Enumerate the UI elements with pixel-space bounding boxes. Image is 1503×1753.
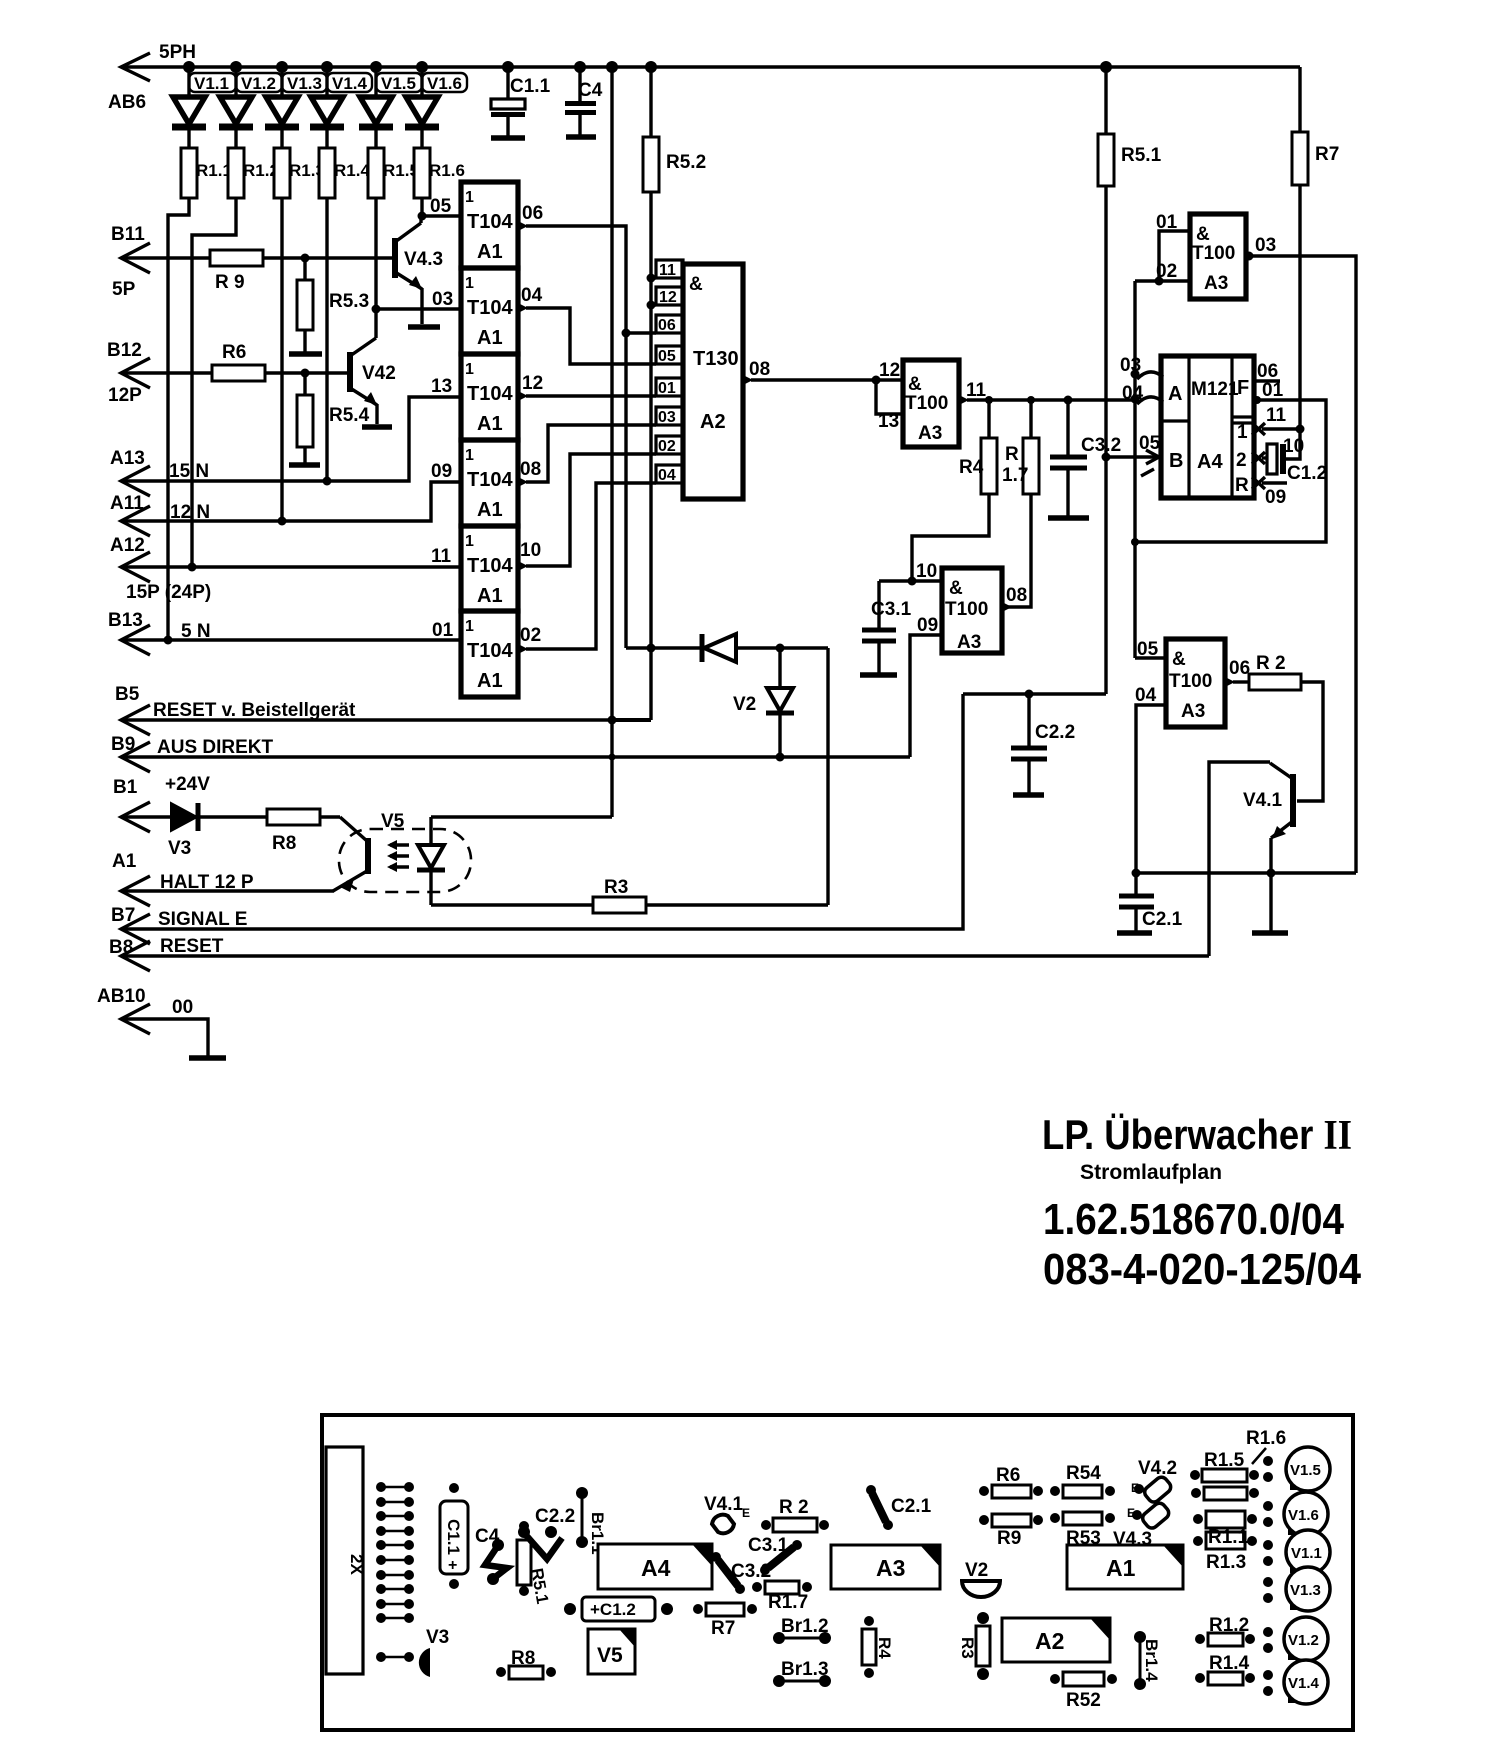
wire 5N line to T104 input 01 (121, 620, 461, 641)
svg-text:11: 11 (659, 262, 676, 279)
wire 5P line (121, 256, 210, 259)
svg-text:R1.6: R1.6 (429, 161, 465, 180)
svg-text:&: & (689, 274, 703, 295)
svg-text:C1.2: C1.2 (1287, 463, 1327, 484)
svg-text:V4.1: V4.1 (1243, 790, 1283, 811)
wire V2 node to R3 (826, 648, 829, 905)
svg-text:01: 01 (658, 380, 676, 397)
svg-text:1: 1 (465, 447, 474, 464)
wire out04 to A2 input 05 (526, 308, 656, 364)
ground C2.2 (1013, 792, 1044, 798)
svg-text:V5: V5 (381, 811, 405, 832)
wire V1.2 cathode to 15P line (188, 198, 237, 572)
PCB IC A1 (1067, 1545, 1183, 1589)
svg-text:R: R (1005, 444, 1019, 465)
PCB resistor R1.7 (752, 1581, 812, 1613)
svg-text:Stromlaufplan: Stromlaufplan (1080, 1161, 1222, 1184)
resistor R1.6 (414, 148, 465, 198)
PCB capacitor C1.2 (564, 1597, 673, 1621)
svg-text:AB10: AB10 (97, 986, 146, 1007)
svg-text:1: 1 (465, 361, 474, 378)
svg-text:C2.1: C2.1 (891, 1496, 932, 1517)
PCB resistor R3 (958, 1612, 990, 1680)
svg-text:+24V: +24V (165, 774, 210, 795)
svg-text:R3: R3 (958, 1637, 977, 1659)
pin 04 input A3 no.4 (1132, 685, 1167, 878)
gate U A3 T100 no.2 (942, 568, 1002, 653)
wire out06 to A2 input 06 and V2 diode line (526, 226, 656, 648)
pin 08 output T104 no.4 (518, 459, 541, 487)
resistor R6 (212, 342, 348, 381)
svg-text:V4.2: V4.2 (1138, 1458, 1177, 1479)
PCB resistor R5.1 (517, 1521, 552, 1605)
svg-text:A1: A1 (477, 585, 503, 607)
PCB resistor R5.3 (1050, 1512, 1115, 1549)
resistor R8 (267, 809, 340, 854)
PCB jumper Br1.3 (773, 1659, 831, 1687)
svg-text:1: 1 (1237, 422, 1248, 443)
node A input 03 04 dynamic marks M121 (1120, 355, 1163, 404)
svg-text:R 2: R 2 (1256, 653, 1286, 674)
svg-text:V2: V2 (965, 1560, 988, 1581)
PCB resistor R7 (693, 1603, 757, 1639)
svg-text:T104: T104 (467, 297, 513, 319)
wire 15P line to T104 input 11 (121, 546, 461, 567)
svg-text:RESET: RESET (160, 936, 224, 957)
pin 04 output T104 no.2 (518, 285, 543, 313)
svg-text:A: A (1168, 383, 1182, 405)
PCB transistor V4.1 (704, 1494, 750, 1533)
svg-text:F: F (1237, 377, 1249, 399)
PCB resistor R1.2 (1195, 1615, 1255, 1646)
svg-text:04: 04 (521, 285, 543, 306)
PCB capacitor C3.2 (711, 1552, 771, 1594)
connector arrow A11 12N (110, 493, 210, 536)
resistor R5.3 (297, 258, 369, 352)
resistor R1.2 (228, 148, 279, 198)
svg-text:T100: T100 (1169, 671, 1212, 692)
svg-text:C1.1: C1.1 (510, 76, 551, 97)
pin 03 input label T104 no.2 (432, 289, 453, 310)
svg-text:1: 1 (465, 618, 474, 635)
resistor R2 (1249, 653, 1323, 801)
PCB LED V1.1 (1263, 1530, 1330, 1574)
svg-text:A12: A12 (110, 535, 145, 556)
svg-text:&: & (1172, 649, 1186, 670)
pin 1 input 11 M121 (1252, 405, 1305, 435)
wire V1.1 cathode to 5N line (164, 198, 190, 645)
pin 03 output A3 no.3 (1245, 235, 1357, 873)
diode V1.3 (265, 67, 327, 148)
svg-text:R3: R3 (604, 877, 628, 898)
svg-text:R6: R6 (996, 1465, 1020, 1486)
PCB IC A4 (598, 1544, 712, 1589)
PCB resistor R5.2 (1050, 1672, 1117, 1711)
wire rail to V5 LED anode column (608, 67, 617, 817)
svg-text:R4: R4 (875, 1637, 894, 1659)
resistor R1.4 (319, 148, 370, 198)
wire node 03 to T104 A1 input (376, 307, 461, 310)
pin 01 input A3 no.3 (1155, 212, 1191, 286)
svg-text:V1.4: V1.4 (1288, 1675, 1320, 1692)
svg-text:02: 02 (520, 625, 541, 646)
svg-text:A3: A3 (957, 632, 981, 653)
svg-text:M121: M121 (1191, 379, 1239, 400)
svg-text:08: 08 (1006, 585, 1027, 606)
phototransistor V5 left (333, 817, 368, 892)
capacitor C3.1 (862, 581, 912, 673)
pin 09 input A3 no.2 from AUS DIREKT (917, 615, 938, 636)
svg-text:12: 12 (659, 289, 677, 306)
svg-text:05: 05 (658, 348, 676, 365)
diode V2 (733, 648, 794, 757)
PCB connector 2X (326, 1447, 366, 1674)
svg-text:11: 11 (431, 546, 452, 567)
wire V1.4 cathode to 15N line (323, 198, 332, 486)
svg-text:C2.1: C2.1 (1142, 909, 1183, 930)
svg-text:10: 10 (916, 561, 937, 582)
svg-text:A1: A1 (477, 499, 503, 521)
svg-text:A4: A4 (641, 1555, 671, 1581)
svg-text:V3: V3 (168, 838, 191, 859)
PCB resistor R4 (862, 1616, 894, 1678)
pin R input 09 M121 (1252, 477, 1287, 508)
PCB connector pin rows (376, 1482, 414, 1662)
svg-text:T100: T100 (945, 599, 988, 620)
connector arrow B9 AUS DIREKT (111, 734, 274, 772)
PCB transistor V4.2 (1131, 1458, 1177, 1504)
pin 05 input box A2 (656, 346, 683, 365)
svg-text:1.7: 1.7 (1002, 465, 1028, 486)
comparator U A1 T104 no.5 (461, 526, 518, 611)
svg-text:09: 09 (917, 615, 938, 636)
svg-text:B12: B12 (107, 340, 142, 361)
svg-text:5P: 5P (112, 279, 136, 300)
svg-text:R1.1: R1.1 (1208, 1527, 1249, 1548)
wire 12N line to T104 input 09 (121, 461, 461, 521)
PCB resistor R8 (496, 1648, 556, 1679)
svg-text:11: 11 (1266, 405, 1287, 426)
gate U A3 T100 no.4 (1166, 639, 1225, 727)
svg-text:09: 09 (431, 461, 452, 482)
svg-text:T104: T104 (467, 211, 513, 233)
connector arrow B5 RESET v. Beistellgeraet (115, 684, 356, 735)
svg-text:V1.1: V1.1 (1291, 1545, 1322, 1562)
ground V4.1 (1252, 930, 1288, 936)
wire node 873 line (1136, 871, 1356, 874)
svg-text:T100: T100 (1192, 243, 1235, 264)
svg-text:R5.1: R5.1 (1121, 145, 1162, 166)
wire C2.2 node line (963, 690, 1106, 699)
PCB jumper Br1.2 (773, 1616, 831, 1644)
ground V4.3 (408, 324, 440, 330)
svg-text:R5.3: R5.3 (329, 291, 369, 312)
diode V1.4 (310, 67, 372, 148)
svg-text:R4: R4 (959, 457, 984, 478)
PCB capacitor C4 (475, 1526, 507, 1585)
title LP Ueberwacher II (1042, 1111, 1361, 1294)
svg-text:&: & (908, 374, 922, 395)
comparator U A1 T104 no.1 (461, 182, 518, 268)
ground C3.2 (1048, 515, 1089, 521)
diode V1.1 (172, 67, 236, 148)
svg-text:T104: T104 (467, 383, 513, 405)
svg-text:A1: A1 (477, 413, 503, 435)
PCB transistor V4.3 (1113, 1501, 1171, 1550)
wire +5V top rail (121, 61, 1300, 73)
svg-text:V1.5: V1.5 (381, 74, 416, 93)
resistor R5.4 (297, 373, 370, 463)
svg-text:Br1.4: Br1.4 (1142, 1639, 1161, 1682)
svg-text:R6: R6 (222, 342, 246, 363)
connector arrow B13 5N (108, 610, 211, 655)
connector arrow B8 RESET (109, 936, 224, 971)
svg-text:A4: A4 (1197, 451, 1223, 473)
svg-text:A13: A13 (110, 448, 145, 469)
connector arrow A12 15P(24P) (110, 535, 211, 603)
pin 04 input box A2 (656, 465, 683, 484)
svg-text:01: 01 (432, 620, 454, 641)
PCB optocoupler V5 (588, 1629, 635, 1674)
PCB board outline (322, 1415, 1353, 1730)
pin 05 input A3 no.4 (1135, 639, 1166, 660)
svg-text:A2: A2 (700, 411, 726, 433)
svg-text:RESET v. Beistellgerät: RESET v. Beistellgerät (153, 700, 356, 721)
wire RESET line to V4.1 collector (121, 954, 1209, 957)
pin 06 output F M121 stub (1254, 361, 1280, 382)
svg-text:12: 12 (522, 373, 543, 394)
PCB jumper Br1.4 (1134, 1631, 1161, 1690)
svg-text:V1.6: V1.6 (1288, 1507, 1319, 1524)
svg-text:V2: V2 (733, 694, 756, 715)
PCB resistor R6 (979, 1465, 1043, 1498)
svg-text:B7: B7 (111, 905, 135, 926)
wire out12 to A2 input 01 (526, 394, 656, 397)
diode V1.5 (359, 67, 422, 148)
svg-text:04: 04 (1135, 685, 1157, 706)
PCB LED V1.6 (1263, 1492, 1328, 1536)
svg-text:R5.2: R5.2 (666, 152, 706, 173)
optocoupler V5 (339, 811, 471, 892)
svg-text:04: 04 (658, 467, 676, 484)
svg-text:A1: A1 (1106, 1555, 1136, 1581)
PCB resistor R1.4 (1195, 1653, 1255, 1685)
svg-text:11: 11 (966, 380, 987, 401)
gate U A3 T100 no.1 (878, 360, 959, 447)
svg-text:02: 02 (1156, 261, 1177, 282)
ground C1.1 (491, 135, 525, 141)
svg-text:083-4-020-125/04: 083-4-020-125/04 (1043, 1245, 1361, 1294)
svg-text:R: R (1235, 475, 1249, 496)
PCB IC A3 (831, 1545, 940, 1589)
svg-text:A3: A3 (876, 1555, 905, 1581)
wire SIGNAL E line to C2.2 node (121, 694, 963, 929)
svg-text:T104: T104 (467, 555, 513, 577)
svg-text:V1.4: V1.4 (332, 74, 368, 93)
PCB resistor R2 (761, 1497, 829, 1532)
svg-text:V5: V5 (597, 1644, 623, 1667)
PCB resistor R1.6 (1191, 1428, 1286, 1500)
svg-text:LP. Überwacher II: LP. Überwacher II (1042, 1111, 1352, 1159)
diode V1.6 (405, 67, 467, 148)
svg-text:10: 10 (520, 540, 541, 561)
ground R5.3 (289, 351, 322, 357)
svg-text:R1.7: R1.7 (768, 1592, 808, 1613)
svg-text:V4.3: V4.3 (404, 249, 443, 270)
connector arrow B11 5P (111, 224, 150, 300)
svg-text:&: & (1196, 224, 1210, 245)
svg-text:V1.2: V1.2 (241, 74, 276, 93)
svg-text:R5.4: R5.4 (329, 405, 370, 426)
svg-text:08: 08 (749, 359, 770, 380)
pin 10 output T104 no.5 (518, 540, 541, 571)
svg-text:B1: B1 (113, 777, 138, 798)
svg-text:A1: A1 (112, 851, 137, 872)
PCB LED V1.3 (1263, 1567, 1330, 1611)
pin 12 output T104 no.3 (518, 373, 543, 401)
svg-text:1.62.518670.0/04: 1.62.518670.0/04 (1043, 1195, 1344, 1244)
pin 05 input B M121 (1106, 433, 1161, 476)
capacitor C2.1 (1119, 873, 1183, 931)
svg-text:06: 06 (1229, 658, 1250, 679)
diode to V2 line (626, 634, 828, 662)
pin 10 input A3 no.2 (879, 561, 942, 586)
resistor R5.1 (1098, 67, 1162, 694)
svg-text:V1.5: V1.5 (1290, 1462, 1321, 1479)
svg-text:02: 02 (658, 438, 676, 455)
wire out02 to A2 input 04 (526, 483, 656, 649)
svg-text:15 N: 15 N (169, 461, 209, 482)
svg-text:B9: B9 (111, 734, 135, 755)
svg-text:06: 06 (522, 203, 543, 224)
gate U A3 T100 no.3 top right (1190, 214, 1246, 299)
svg-text:A3: A3 (918, 423, 942, 444)
PCB resistor R1.1 (1193, 1511, 1257, 1548)
PCB LED V1.2 (1263, 1617, 1328, 1661)
svg-text:V1.6: V1.6 (427, 74, 462, 93)
wire out10 to A2 input 02 (526, 454, 656, 566)
svg-text:R54: R54 (1066, 1463, 1101, 1484)
wire node 05 to T104 A1 input (422, 196, 461, 217)
svg-text:R7: R7 (1315, 144, 1339, 165)
capacitor C3.2 (1050, 400, 1121, 516)
pin 01 input box A2 (656, 378, 683, 397)
ground R5.4 (289, 462, 320, 468)
svg-text:V3: V3 (426, 1627, 449, 1648)
PCB resistor R1.3 (1193, 1532, 1257, 1573)
gate A2 T130 (683, 264, 743, 499)
svg-text:T104: T104 (467, 640, 513, 662)
comparator U A1 T104 no.3 (461, 354, 518, 440)
wire V1.5 cathode to node 03 (372, 198, 381, 314)
svg-text:08: 08 (520, 459, 541, 480)
svg-text:V4.1: V4.1 (704, 1494, 744, 1515)
svg-text:AUS DIREKT: AUS DIREKT (157, 737, 274, 758)
svg-text:A1: A1 (477, 670, 503, 692)
svg-text:R1.3: R1.3 (1206, 1552, 1246, 1573)
svg-text:5PH: 5PH (159, 42, 196, 63)
PCB LED V1.5 (1263, 1447, 1330, 1491)
pin 08 output A3 no.2 to R1.7 (1002, 585, 1027, 612)
pin 11 input box A2 (651, 260, 683, 279)
PCB capacitor C1.1 (440, 1483, 468, 1589)
pin 03 input box A2 (656, 407, 683, 426)
svg-text:R9: R9 (997, 1528, 1021, 1549)
pin 02 input A3 no.3 (1135, 261, 1190, 282)
wire out08 to A2 input 03 (526, 425, 656, 482)
svg-text:T104: T104 (467, 469, 513, 491)
svg-text:A3: A3 (1181, 701, 1205, 722)
ground 00 (189, 1055, 226, 1061)
PCB capacitor C2.1 (866, 1485, 932, 1530)
wire 15N line to T104 input 13 (121, 376, 461, 481)
connector arrow AB6 5PH (108, 42, 196, 113)
resistor R3 (431, 877, 828, 913)
pin 12 input box A2 (651, 287, 683, 306)
svg-text:09: 09 (1265, 487, 1286, 508)
svg-text:A3: A3 (1204, 273, 1228, 294)
pin 01 output M121 feedback (1135, 380, 1326, 542)
transistor V4.3 (395, 216, 443, 324)
pin 06 output T104 no.1 (518, 203, 543, 231)
resistor R9 (210, 250, 392, 293)
svg-text:SIGNAL E: SIGNAL E (158, 909, 247, 930)
svg-text:V1.2: V1.2 (1288, 1632, 1319, 1649)
svg-text:A1: A1 (477, 327, 503, 349)
svg-text:B: B (1169, 450, 1183, 472)
capacitor C1.1 (491, 67, 551, 136)
connector arrow A13 15N (110, 448, 209, 496)
ground V4.2 (362, 424, 392, 430)
LED V5 right (417, 817, 445, 905)
wire V1.3 cathode to 12N line (278, 198, 287, 526)
resistor R1.5 (368, 148, 419, 198)
svg-text:C3.2: C3.2 (1081, 435, 1121, 456)
ground C2.1 (1117, 930, 1152, 936)
pin 08 output A2 to A3 gate inputs 12 13 (743, 359, 903, 414)
connector arrow A1 HALT 12P (112, 851, 254, 906)
pin 02 output T104 no.6 (518, 625, 541, 654)
svg-text:T130: T130 (693, 348, 739, 370)
wire node W to M121 inputs (989, 396, 1135, 405)
PCB jumper Br1.1 (576, 1487, 607, 1555)
pin 02 input box A2 (656, 436, 683, 455)
svg-text:V1.1: V1.1 (194, 74, 229, 93)
transistor V4.2 (350, 309, 396, 424)
svg-text:2X: 2X (347, 1554, 366, 1575)
PCB resistor R1.5 (1190, 1450, 1259, 1482)
pin 06 output A3 no.4 (1225, 658, 1250, 687)
svg-text:V42: V42 (362, 363, 396, 384)
connector arrow B12 12P (107, 340, 150, 406)
svg-text:T100: T100 (905, 393, 948, 414)
svg-text:B11: B11 (111, 224, 145, 245)
svg-text:15P (24P): 15P (24P) (126, 582, 211, 603)
comparator U A1 T104 no.6 (461, 611, 518, 697)
pin 11 output A3 no.1 (959, 380, 993, 438)
PCB diode V2 (962, 1560, 1000, 1597)
PCB capacitor C3.1 (748, 1535, 802, 1575)
resistor R1.7 (1002, 400, 1039, 607)
svg-text:1: 1 (465, 189, 474, 206)
svg-text:R7: R7 (711, 1618, 735, 1639)
svg-text:03: 03 (432, 289, 453, 310)
svg-text:&: & (949, 578, 963, 599)
svg-text:AB6: AB6 (108, 92, 146, 113)
connector arrow B7 SIGNAL E (111, 905, 247, 944)
resistor R1.3 (274, 148, 325, 198)
svg-text:R1.4: R1.4 (334, 161, 370, 180)
